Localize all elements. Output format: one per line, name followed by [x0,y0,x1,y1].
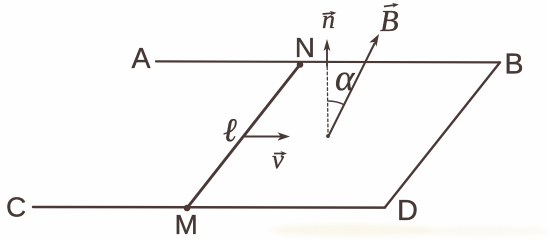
label vector n [322,5,337,34]
vector n arrowhead [324,39,331,51]
svg-text:D: D [397,195,418,227]
vector v arrowhead [278,132,291,140]
vector n shaft [326,45,328,67]
vector B shaft [328,44,375,138]
faint scan smudge bottom right [270,224,430,236]
label vector v [272,144,287,174]
angle alpha arc [328,101,344,105]
vector B arrowhead [369,34,379,47]
rod MN (conductor l) [187,65,300,209]
svg-text:n: n [322,5,335,34]
svg-text:ℓ: ℓ [223,113,237,149]
svg-text:C: C [6,191,26,222]
svg-text:N: N [295,32,315,63]
vector v shaft [244,135,282,137]
node M junction dot [184,205,191,212]
svg-text:α: α [335,58,356,99]
svg-text:A: A [132,43,151,75]
svg-text:B: B [380,4,399,38]
node N junction dot [297,61,304,68]
foot point of n and B [326,134,330,138]
wire BD (right side) [385,62,500,207]
label vector B [380,2,399,38]
wire rail CD (bottom) [33,206,385,209]
svg-text:v: v [272,144,284,174]
svg-text:M: M [175,209,198,240]
dashed normal line below rail [326,67,329,133]
svg-text:B: B [505,48,524,80]
wire rail AB (top) [156,61,500,62]
